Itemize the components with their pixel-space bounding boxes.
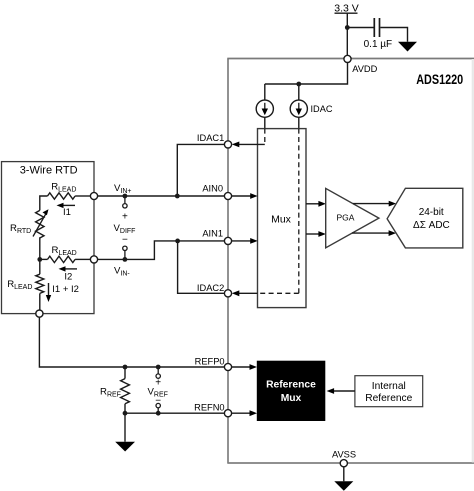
ADS1220 device box: [227, 58, 474, 60]
svg-text:Internal: Internal: [372, 381, 406, 392]
wire RLEAD top to pin: [75, 195, 90, 197]
node RREF bottom: [123, 411, 128, 416]
svg-text:IDAC: IDAC: [311, 104, 333, 114]
wire AIN1 node to IDAC2 pin: [178, 241, 225, 293]
ADC block 24-bit delta-sigma: [387, 188, 463, 248]
current arrow I2: [59, 266, 78, 282]
node RTD middle: [37, 257, 42, 262]
svg-text:IDAC1: IDAC1: [197, 133, 224, 143]
wire AIN1 to mux (arrow): [232, 240, 251, 242]
3-wire RTD box: [2, 162, 95, 314]
svg-text:+: +: [122, 212, 128, 223]
node IDAC1/AIN0: [175, 194, 180, 199]
current source 2 (IDAC): [290, 100, 333, 117]
op-amp PGA: [326, 188, 379, 247]
internal reference block: [355, 376, 423, 407]
pin IDAC2: [224, 290, 231, 297]
svg-text:Reference: Reference: [365, 393, 412, 404]
node AIN1/IDAC2: [175, 239, 180, 244]
wire to left current source: [264, 84, 266, 100]
svg-text:−: −: [122, 235, 128, 246]
svg-text:0.1 µF: 0.1 µF: [364, 39, 393, 50]
pin AIN1: [224, 237, 231, 244]
wire capacitor to ground: [380, 28, 407, 42]
svg-text:IDAC2: IDAC2: [197, 283, 224, 293]
wire mux to PGA upper (arrow): [306, 203, 320, 205]
wire current source 2 to mux: [298, 117, 300, 129]
node VREF bottom: [156, 411, 161, 416]
svg-text:AIN1: AIN1: [202, 229, 223, 239]
svg-text:PGA: PGA: [337, 213, 355, 223]
pin REFN0: [224, 410, 231, 417]
wire REFP0 to reference mux (arrow): [232, 366, 251, 368]
ground (AVSS): [334, 481, 353, 491]
pin REFP0: [224, 363, 231, 370]
mux block: [258, 129, 307, 308]
resistor RLEAD middle: [40, 245, 91, 263]
wire AVSS to ground: [343, 467, 345, 481]
wire PGA to ADC lower (arrow): [352, 232, 390, 234]
current arrow I1+I2: [46, 283, 79, 302]
resistor RRTD (variable): [10, 209, 49, 238]
node VREF top: [156, 365, 161, 370]
dashed net IDAC1 inside mux: [264, 129, 266, 145]
svg-text:AIN0: AIN0: [202, 184, 223, 194]
svg-text:AVSS: AVSS: [332, 450, 356, 460]
wire VIN+ to AIN0: [98, 195, 225, 197]
node VIN+/VDIFF: [123, 194, 128, 199]
node IDAC branch: [296, 82, 301, 87]
svg-text:REFP0: REFP0: [195, 356, 225, 366]
resistor RREF: [100, 367, 129, 413]
wire mux to IDAC2 pin (arrow): [239, 292, 258, 294]
node VIN-/VDIFF: [123, 257, 128, 262]
dashed net IDAC2 horizontal inside mux: [258, 292, 299, 294]
ground (capacitor): [398, 42, 417, 52]
capacitor C 0.1 uF: [364, 18, 393, 50]
node RTD middle lead pin: [90, 256, 97, 263]
svg-text:+: +: [155, 378, 161, 389]
wire RTD bottom to REFP0: [39, 317, 224, 367]
pin AVSS: [340, 460, 347, 467]
svg-text:AVDD: AVDD: [352, 64, 377, 74]
svg-text:I1 + I2: I1 + I2: [52, 284, 79, 295]
current arrow I1: [57, 203, 76, 218]
wire to right current source: [298, 84, 300, 100]
node RREF top: [123, 365, 128, 370]
svg-text:Mux: Mux: [271, 214, 292, 226]
svg-text:Reference: Reference: [266, 379, 316, 390]
resistor RLEAD bottom: [7, 259, 44, 310]
wire IDAC1 pin to VIN+ node: [177, 144, 224, 196]
svg-text:Mux: Mux: [281, 393, 302, 404]
pin IDAC1: [224, 141, 231, 148]
pin AVDD: [344, 55, 351, 62]
wire junction to capacitor: [347, 27, 373, 29]
svg-text:I2: I2: [64, 271, 72, 282]
svg-text:REFN0: REFN0: [194, 403, 224, 413]
resistor RLEAD top: [48, 181, 77, 199]
wire current source 1 to mux: [264, 117, 266, 129]
wire RREF bottom to REFN0: [125, 412, 224, 414]
wire VIN- to AIN1: [98, 241, 225, 260]
wire AIN0 to mux (arrow): [232, 195, 251, 197]
wire supply down to AVDD: [346, 13, 348, 55]
wire PGA to ADC upper (arrow): [353, 203, 390, 205]
dashed net IDAC2 vertical inside mux: [298, 129, 300, 294]
node RTD bottom lead: [36, 310, 43, 317]
current source 1: [256, 100, 273, 117]
svg-text:I1: I1: [63, 207, 71, 218]
wire RLEAD top to RRTD: [40, 196, 48, 210]
wire RREF to ground: [124, 413, 126, 442]
wire internal reference to reference mux (arrow): [333, 390, 355, 392]
svg-text:ADS1220: ADS1220: [416, 71, 463, 87]
pin AIN0: [224, 192, 231, 199]
svg-text:ΔΣ ADC: ΔΣ ADC: [413, 220, 450, 231]
VDIFF sense terminal top: [124, 196, 126, 204]
wire AVDD to current sources: [265, 63, 348, 85]
wire mux to PGA lower (arrow): [306, 233, 320, 235]
wire REFN0 to reference mux (arrow): [232, 412, 251, 414]
reference mux block: [257, 361, 326, 421]
node RTD top lead: [90, 192, 97, 199]
VREF sense: [148, 367, 168, 413]
ground (RREF): [115, 442, 135, 452]
node supply/cap junction: [345, 25, 350, 30]
svg-text:24-bit: 24-bit: [419, 207, 444, 218]
wire mux to IDAC1 pin (arrow): [239, 143, 265, 145]
wire RRTD to middle node: [39, 237, 41, 259]
VDIFF sense terminal bottom: [123, 246, 127, 250]
supply 3.3 V: [334, 2, 359, 14]
svg-text:3-Wire RTD: 3-Wire RTD: [20, 164, 78, 176]
